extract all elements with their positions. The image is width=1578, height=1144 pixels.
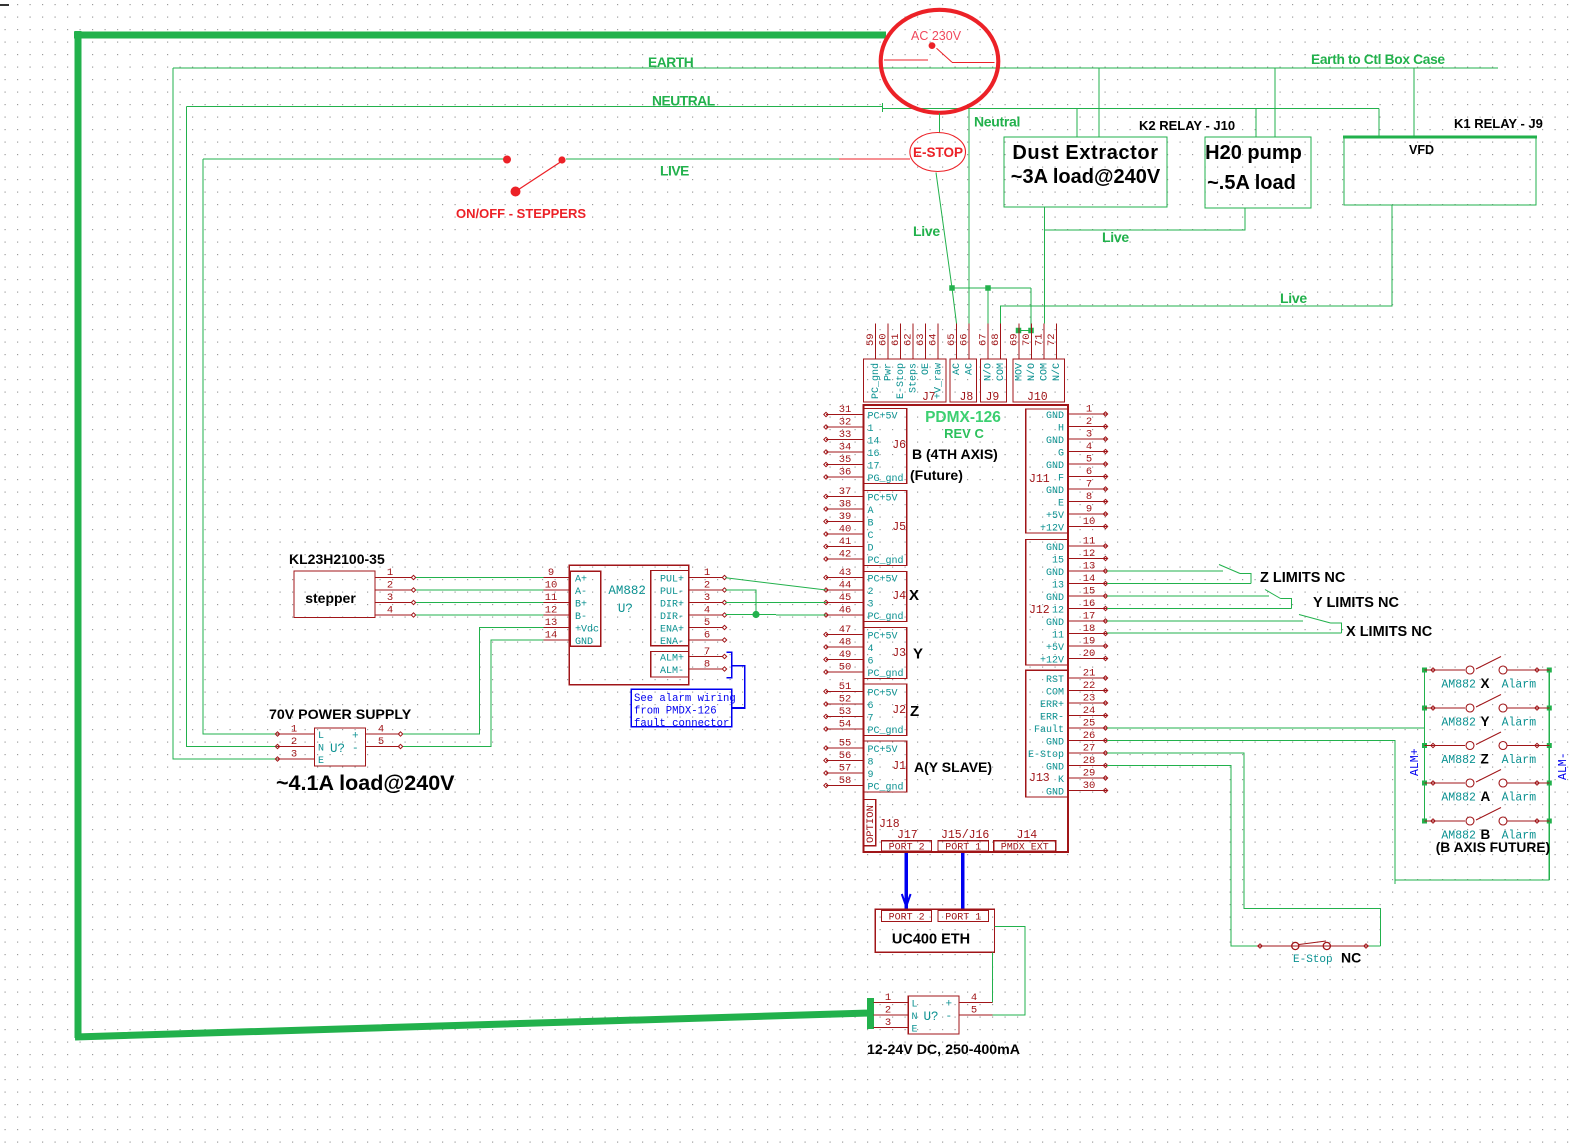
svg-text:68: 68 bbox=[990, 333, 1002, 346]
wire J12 to X limit upper bbox=[1107, 620, 1303, 622]
svg-text:5: 5 bbox=[378, 736, 384, 748]
svg-text:K: K bbox=[1058, 775, 1064, 786]
pin 33 J6 14 bbox=[826, 439, 864, 441]
svg-text:GND: GND bbox=[1046, 763, 1064, 774]
wire stepper pin 3 to AM882 bbox=[416, 602, 544, 604]
pin 56 J1 8 bbox=[826, 760, 864, 762]
svg-text:4: 4 bbox=[868, 644, 874, 655]
svg-text:Y LIMITS NC: Y LIMITS NC bbox=[1313, 595, 1399, 611]
svg-text:OPTION: OPTION bbox=[865, 805, 877, 843]
svg-text:10: 10 bbox=[1083, 516, 1096, 528]
wire earth to Dust Extractor bbox=[1098, 68, 1100, 137]
pin 55 J1 PC+5V bbox=[826, 747, 864, 749]
svg-text:KL23H2100-35: KL23H2100-35 bbox=[289, 551, 385, 567]
svg-text:H20 pump: H20 pump bbox=[1205, 142, 1302, 164]
ALM- bus (right vertical) bbox=[1548, 670, 1550, 880]
svg-text:43: 43 bbox=[839, 567, 852, 579]
svg-text:12: 12 bbox=[1052, 606, 1064, 617]
svg-text:3: 3 bbox=[868, 600, 874, 611]
svg-text:EARTH: EARTH bbox=[648, 55, 694, 70]
pin 4 12-24V supply bbox=[959, 1002, 992, 1004]
pin 61 J7 E-Stop bbox=[900, 324, 902, 360]
pin 39 J5 B bbox=[826, 521, 864, 523]
svg-text:(B AXIS FUTURE): (B AXIS FUTURE) bbox=[1436, 840, 1550, 855]
connector J10 (top) bbox=[1013, 359, 1065, 402]
connector J5 (left) bbox=[864, 491, 907, 566]
pin 72 J10 N/C bbox=[1056, 324, 1058, 360]
svg-text:+5V: +5V bbox=[1046, 511, 1064, 522]
power supply U? 70V box bbox=[315, 728, 366, 766]
svg-text:71: 71 bbox=[1034, 333, 1046, 346]
svg-text:4: 4 bbox=[378, 724, 384, 736]
svg-text:B: B bbox=[868, 519, 874, 530]
svg-text:AC: AC bbox=[952, 363, 963, 375]
pin 1 AM882 PUL+ bbox=[689, 577, 723, 579]
wire PDMX pin 25 Fault to ALM+ bus bbox=[1107, 727, 1425, 729]
pin 12 AM882 B- bbox=[544, 614, 571, 616]
svg-text:8: 8 bbox=[1086, 491, 1092, 503]
svg-text:E-STOP: E-STOP bbox=[913, 145, 963, 160]
svg-text:GND: GND bbox=[1046, 618, 1064, 629]
svg-text:3: 3 bbox=[704, 592, 710, 604]
cable PORT1 to UC400 (blue) bbox=[961, 853, 964, 909]
pin 3 stepper bbox=[375, 602, 412, 604]
node junction pins 69-70 bridge bbox=[1016, 328, 1022, 334]
svg-text:Live: Live bbox=[913, 223, 940, 239]
pin 13 J12 GND bbox=[1068, 570, 1107, 572]
svg-text:E: E bbox=[1058, 499, 1064, 510]
svg-text:PC_gnd: PC_gnd bbox=[870, 363, 882, 399]
svg-text:AC 230V: AC 230V bbox=[911, 29, 962, 43]
svg-text:ALM-: ALM- bbox=[660, 666, 684, 677]
svg-text:7: 7 bbox=[868, 714, 874, 725]
pin 25 J13 Fault bbox=[1068, 727, 1107, 729]
svg-text:Alarm: Alarm bbox=[1502, 717, 1537, 730]
svg-text:ALM-: ALM- bbox=[1557, 752, 1570, 780]
svg-text:47: 47 bbox=[839, 624, 852, 636]
svg-text:5: 5 bbox=[704, 617, 710, 629]
wire neutral to H20 pump bbox=[1255, 108, 1257, 137]
svg-text:+: + bbox=[946, 999, 953, 1011]
pin 70 J10 N/O bbox=[1031, 324, 1033, 360]
svg-text:DIR-: DIR- bbox=[660, 612, 684, 623]
svg-text:X LIMITS NC: X LIMITS NC bbox=[1346, 624, 1433, 640]
pin 20 J12 +12V bbox=[1068, 658, 1107, 660]
connector J13 (right) bbox=[1026, 670, 1068, 797]
svg-text:6: 6 bbox=[868, 657, 874, 668]
pin 38 J5 A bbox=[826, 508, 864, 510]
wire horizontal link pins 65-70 bbox=[952, 287, 1031, 289]
wire Z limit return to J12 bbox=[1107, 583, 1251, 585]
svg-text:stepper: stepper bbox=[305, 590, 356, 606]
svg-text:15: 15 bbox=[1052, 556, 1064, 567]
pin 10 J11 +12V bbox=[1068, 526, 1107, 528]
pin 8 J11 E bbox=[1068, 501, 1107, 503]
pin 69 J10 MOV bbox=[1018, 324, 1020, 360]
pin 2 stepper bbox=[375, 589, 412, 591]
svg-text:30: 30 bbox=[1083, 780, 1096, 792]
svg-text:PUL+: PUL+ bbox=[660, 575, 684, 586]
svg-text:F: F bbox=[1058, 474, 1064, 485]
svg-text:Alarm: Alarm bbox=[1502, 754, 1537, 767]
pin 35 J6 17 bbox=[826, 464, 864, 466]
svg-text:Z LIMITS NC: Z LIMITS NC bbox=[1260, 570, 1346, 586]
pin 10 AM882 A- bbox=[544, 589, 571, 591]
connector J7 (top) bbox=[863, 359, 946, 402]
svg-text:J9: J9 bbox=[986, 391, 1000, 404]
svg-text:J17: J17 bbox=[897, 829, 918, 842]
motor M1 stepper bbox=[294, 571, 375, 618]
svg-text:Live: Live bbox=[1280, 290, 1307, 306]
load Dust Extractor (K2 relay) bbox=[1004, 137, 1167, 207]
svg-text:64: 64 bbox=[928, 333, 940, 346]
svg-text:J2: J2 bbox=[892, 704, 906, 717]
svg-text:62: 62 bbox=[903, 333, 915, 346]
wire PDMX pin 28 GND to E-stop switch bbox=[1107, 766, 1257, 947]
pin 50 J3 PC_gnd bbox=[826, 671, 864, 673]
svg-text:5: 5 bbox=[971, 1005, 977, 1017]
pin 64 J7 +V_raw bbox=[937, 324, 939, 360]
svg-text:N: N bbox=[318, 744, 324, 755]
svg-text:GND: GND bbox=[1046, 568, 1064, 579]
svg-text:PUL-: PUL- bbox=[660, 587, 684, 598]
svg-text:4: 4 bbox=[704, 605, 710, 617]
svg-text:17: 17 bbox=[1083, 611, 1096, 623]
svg-text:26: 26 bbox=[1083, 730, 1096, 742]
svg-text:J15/J16: J15/J16 bbox=[941, 829, 989, 842]
svg-text:J1: J1 bbox=[892, 760, 906, 773]
pin 21 J13 RST bbox=[1068, 677, 1107, 679]
svg-text:AM882: AM882 bbox=[1441, 717, 1476, 730]
svg-text:25: 25 bbox=[1083, 718, 1096, 730]
svg-text:PC+5V: PC+5V bbox=[868, 412, 898, 423]
svg-text:K1 RELAY - J9: K1 RELAY - J9 bbox=[1454, 116, 1543, 131]
pin 31 J6 PC+5V bbox=[826, 414, 864, 416]
svg-text:GND: GND bbox=[575, 637, 593, 648]
switch E-Stop NC bbox=[1257, 945, 1369, 947]
svg-text:72: 72 bbox=[1046, 333, 1058, 346]
svg-text:E-Stop: E-Stop bbox=[896, 363, 907, 399]
svg-text:69: 69 bbox=[1009, 333, 1021, 346]
svg-text:ALM+: ALM+ bbox=[660, 654, 684, 665]
svg-text:ENA-: ENA- bbox=[660, 637, 684, 648]
svg-text:4: 4 bbox=[1086, 441, 1092, 453]
pin 27 J13 E-Stop bbox=[1068, 752, 1107, 754]
svg-text:PC_gnd: PC_gnd bbox=[868, 782, 904, 794]
pin 28 J13 GND bbox=[1068, 765, 1107, 767]
pin 5 12-24V supply bbox=[959, 1014, 992, 1016]
pin 18 J12 11 bbox=[1068, 633, 1107, 635]
svg-text:7: 7 bbox=[704, 646, 710, 658]
pin 29 J13 K bbox=[1068, 777, 1107, 779]
E-stop switch SW2 bbox=[910, 133, 966, 172]
svg-text:6: 6 bbox=[704, 630, 710, 642]
wire LIVE vertical to 70V supply bbox=[203, 159, 277, 734]
svg-text:12: 12 bbox=[545, 605, 558, 617]
svg-text:+5V: +5V bbox=[1046, 643, 1064, 654]
svg-text:22: 22 bbox=[1083, 680, 1096, 692]
svg-text:AM882: AM882 bbox=[1441, 792, 1476, 805]
svg-text:10: 10 bbox=[545, 580, 558, 592]
svg-text:Z: Z bbox=[910, 703, 919, 720]
svg-text:1: 1 bbox=[387, 567, 393, 579]
svg-text:2: 2 bbox=[291, 736, 297, 748]
pin 1 stepper bbox=[375, 577, 412, 579]
svg-text:PC_gnd: PC_gnd bbox=[868, 611, 904, 623]
svg-text:3: 3 bbox=[291, 749, 297, 761]
wire EARTH bus horizontal bbox=[173, 67, 1498, 69]
svg-text:49: 49 bbox=[839, 649, 852, 661]
svg-text:~.5A load: ~.5A load bbox=[1207, 172, 1296, 194]
wire stepper pin 1 to AM882 bbox=[416, 577, 544, 579]
svg-text:35: 35 bbox=[839, 454, 852, 466]
pin 3 AM882 DIR+ bbox=[689, 602, 723, 604]
wire AM882 DIR- to PDMX pin 46 bbox=[726, 614, 826, 617]
note box: see alarm wiring bbox=[631, 689, 731, 727]
alarm bracket (blue) bbox=[726, 652, 731, 678]
pin 66 J8 AC bbox=[968, 324, 970, 360]
svg-text:J5: J5 bbox=[892, 521, 906, 534]
pin 67 J9 N/O bbox=[987, 324, 989, 360]
svg-text:56: 56 bbox=[839, 750, 852, 762]
pin 49 J3 6 bbox=[826, 659, 864, 661]
svg-text:1: 1 bbox=[885, 992, 891, 1004]
svg-text:J12: J12 bbox=[1029, 604, 1050, 617]
svg-text:44: 44 bbox=[839, 580, 852, 592]
svg-text:PC+5V: PC+5V bbox=[868, 494, 898, 505]
connector J2 (left) bbox=[864, 684, 907, 736]
svg-text:45: 45 bbox=[839, 592, 852, 604]
svg-text:40: 40 bbox=[839, 524, 852, 536]
svg-text:A-: A- bbox=[575, 587, 587, 598]
wire Live from Dust Extractor / H20 pump to J10 COM pin 71 bbox=[1045, 208, 1246, 324]
svg-text:2: 2 bbox=[704, 580, 710, 592]
svg-text:65: 65 bbox=[946, 333, 958, 346]
svg-text:6: 6 bbox=[868, 701, 874, 712]
svg-text:E: E bbox=[912, 1025, 918, 1036]
svg-text:B (4TH AXIS): B (4TH AXIS) bbox=[912, 446, 998, 462]
pin 60 J7 Pwr bbox=[887, 324, 889, 360]
pin 45 J4 3 bbox=[826, 602, 864, 604]
IC U2 stepper driver AM882 outline bbox=[569, 565, 688, 684]
pin 5 J11 GND bbox=[1068, 463, 1107, 465]
svg-text:1: 1 bbox=[1086, 404, 1092, 416]
svg-text:Fault: Fault bbox=[1034, 724, 1064, 736]
pin 4 70V supply bbox=[366, 733, 400, 735]
wire E-stop switch to ALM- drop bbox=[1369, 945, 1381, 947]
svg-text:AC: AC bbox=[965, 363, 976, 375]
svg-text:D: D bbox=[868, 544, 874, 555]
svg-text:27: 27 bbox=[1083, 743, 1096, 755]
svg-text:58: 58 bbox=[839, 775, 852, 787]
svg-text:3: 3 bbox=[1086, 429, 1092, 441]
connector J4 (left) bbox=[864, 572, 907, 622]
pin 11 J12 GND bbox=[1068, 545, 1107, 547]
svg-text:20: 20 bbox=[1083, 648, 1096, 660]
wire NEUTRAL vertical to 70V supply bbox=[187, 107, 278, 747]
svg-text:See alarm wiring: See alarm wiring bbox=[634, 693, 736, 705]
svg-text:Earth to Ctl Box Case: Earth to Ctl Box Case bbox=[1311, 52, 1445, 67]
svg-text:Y: Y bbox=[913, 646, 923, 663]
svg-text:2: 2 bbox=[387, 580, 393, 592]
pin 4 J11 G bbox=[1068, 451, 1107, 453]
svg-text:7: 7 bbox=[1086, 479, 1092, 491]
svg-text:OE: OE bbox=[921, 363, 932, 375]
pin 51 J2 PC+5V bbox=[826, 691, 864, 693]
IC UC400 ETH motion controller bbox=[875, 909, 994, 952]
connector J12 (right) bbox=[1026, 540, 1068, 666]
svg-text:37: 37 bbox=[839, 486, 852, 498]
pin 3 12-24V supply bbox=[873, 1027, 908, 1029]
svg-text:13: 13 bbox=[545, 617, 558, 629]
svg-text:PC+5V: PC+5V bbox=[868, 632, 898, 643]
svg-text:14: 14 bbox=[1083, 573, 1096, 585]
svg-text:70: 70 bbox=[1021, 333, 1033, 346]
pin 2 70V supply bbox=[277, 746, 315, 748]
pin 1 12-24V supply bbox=[873, 1002, 908, 1004]
svg-text:1: 1 bbox=[704, 567, 710, 579]
svg-text:A: A bbox=[1481, 789, 1491, 804]
pin 52 J2 6 bbox=[826, 703, 864, 705]
svg-text:3: 3 bbox=[885, 1017, 891, 1029]
pin 2 AM882 PUL- bbox=[689, 589, 723, 591]
svg-text:ENA+: ENA+ bbox=[660, 625, 684, 636]
svg-text:13: 13 bbox=[1052, 581, 1064, 592]
switch X limit (NC) bbox=[1299, 615, 1331, 624]
connector J18 OPTION bbox=[864, 800, 876, 846]
cable PORT2 to UC400 (blue) bbox=[905, 853, 908, 909]
switch Y limit (NC) bbox=[1265, 590, 1281, 599]
svg-text:11: 11 bbox=[1083, 536, 1096, 548]
svg-text:PMDX EXT: PMDX EXT bbox=[1001, 843, 1049, 854]
svg-text:16: 16 bbox=[1083, 598, 1096, 610]
connector J3 (left) bbox=[864, 628, 907, 679]
wire UC400 to 12-24V supply pin 4 bbox=[991, 952, 993, 1002]
svg-text:36: 36 bbox=[839, 467, 852, 479]
svg-text:U?: U? bbox=[924, 1010, 939, 1024]
svg-text:GND: GND bbox=[1046, 486, 1064, 497]
svg-text:PORT 1: PORT 1 bbox=[945, 843, 981, 854]
svg-text:+12V: +12V bbox=[1040, 656, 1064, 667]
pin 2 12-24V supply bbox=[873, 1014, 908, 1016]
pin 8 AM882 ALM- bbox=[689, 668, 723, 670]
wire LIVE bus horizontal bbox=[203, 158, 507, 160]
pin 41 J5 D bbox=[826, 546, 864, 548]
wire stepper pin 4 to AM882 bbox=[416, 614, 544, 616]
wire earth to H20 pump bbox=[1274, 68, 1276, 137]
svg-text:14: 14 bbox=[545, 630, 558, 642]
svg-text:J10: J10 bbox=[1027, 391, 1048, 404]
svg-text:Z: Z bbox=[1481, 752, 1489, 767]
svg-text:19: 19 bbox=[1083, 636, 1096, 648]
node junction at E-stop output bbox=[949, 285, 955, 291]
svg-text:PORT 2: PORT 2 bbox=[889, 913, 925, 924]
svg-text:J6: J6 bbox=[892, 439, 906, 452]
svg-text:AM882: AM882 bbox=[1441, 679, 1476, 692]
connector J9 (top) bbox=[981, 359, 1007, 402]
svg-text:3: 3 bbox=[387, 592, 393, 604]
wire thick earth/mains feed (left border) bbox=[74, 31, 886, 1038]
connector J8 (top) bbox=[950, 359, 977, 402]
wire earth to VFD bbox=[1413, 68, 1415, 136]
wire PDMX pin 27 E-Stop to E-stop switch bbox=[1107, 753, 1381, 946]
wire X limit return to J12 bbox=[1107, 632, 1342, 634]
svg-text:PC+5V: PC+5V bbox=[868, 689, 898, 700]
pin 23 J13 ERR+ bbox=[1068, 702, 1107, 704]
pin 16 J12 12 bbox=[1068, 608, 1107, 610]
svg-text:PORT 2: PORT 2 bbox=[889, 843, 925, 854]
pin 4 AM882 DIR- bbox=[689, 614, 723, 616]
svg-text:PC+5V: PC+5V bbox=[868, 575, 898, 586]
pin 9 J11 +5V bbox=[1068, 513, 1107, 515]
svg-text:PC_gnd: PC_gnd bbox=[868, 725, 904, 737]
svg-text:A(Y SLAVE): A(Y SLAVE) bbox=[914, 759, 992, 775]
pin 62 J7 Steps bbox=[912, 324, 914, 360]
pin 68 J9 COM bbox=[1000, 324, 1002, 360]
pin 9 AM882 A+ bbox=[544, 577, 571, 579]
svg-text:23: 23 bbox=[1083, 693, 1096, 705]
svg-text:9: 9 bbox=[548, 567, 554, 579]
svg-text:GND: GND bbox=[1046, 461, 1064, 472]
svg-text:9: 9 bbox=[1086, 504, 1092, 516]
svg-text:70V POWER SUPPLY: 70V POWER SUPPLY bbox=[269, 707, 412, 723]
svg-text:11: 11 bbox=[1052, 631, 1064, 642]
svg-text:N/C: N/C bbox=[1051, 363, 1063, 381]
svg-text:1: 1 bbox=[291, 724, 297, 736]
svg-text:46: 46 bbox=[839, 605, 852, 617]
svg-text:COM: COM bbox=[1040, 363, 1051, 381]
svg-text:18: 18 bbox=[1083, 623, 1096, 635]
svg-text:-: - bbox=[946, 1011, 953, 1023]
pin 59 J7 PC_gnd bbox=[875, 324, 877, 360]
svg-text:RST: RST bbox=[1046, 675, 1064, 686]
svg-text:38: 38 bbox=[839, 499, 852, 511]
svg-text:AM882: AM882 bbox=[608, 584, 646, 598]
alarm switch AM882X bbox=[1422, 668, 1427, 673]
svg-text:ERR-: ERR- bbox=[1040, 713, 1064, 724]
svg-text:31: 31 bbox=[839, 404, 852, 416]
node junction at pin 67 drop bbox=[985, 285, 991, 291]
pin 40 J5 C bbox=[826, 533, 864, 535]
connector J1 (left) bbox=[864, 741, 907, 792]
svg-text:N/O: N/O bbox=[1026, 363, 1038, 381]
svg-text:33: 33 bbox=[839, 429, 852, 441]
pin 65 J8 AC bbox=[956, 324, 958, 360]
svg-text:53: 53 bbox=[839, 706, 852, 718]
svg-text:63: 63 bbox=[915, 333, 927, 346]
wire neutral drop to J8 pin 66 bbox=[968, 108, 970, 323]
svg-text:~4.1A load@240V: ~4.1A load@240V bbox=[276, 771, 455, 795]
svg-text:+: + bbox=[352, 731, 359, 743]
svg-text:Live: Live bbox=[1102, 229, 1129, 245]
pin 5 70V supply bbox=[366, 746, 400, 748]
svg-text:4: 4 bbox=[387, 605, 393, 617]
svg-text:GND: GND bbox=[1046, 436, 1064, 447]
svg-text:PC_gnd: PC_gnd bbox=[868, 555, 904, 567]
pin 47 J3 PC+5V bbox=[826, 634, 864, 636]
pin 14 J12 13 bbox=[1068, 583, 1107, 585]
svg-text:13: 13 bbox=[1083, 561, 1096, 573]
AM882 alarm connector ALM bbox=[651, 652, 689, 677]
svg-text:GND: GND bbox=[1046, 788, 1064, 799]
svg-text:A: A bbox=[868, 506, 874, 517]
svg-text:Dust Extractor: Dust Extractor bbox=[1012, 142, 1158, 164]
svg-text:21: 21 bbox=[1083, 668, 1096, 680]
svg-text:AM882: AM882 bbox=[1441, 754, 1476, 767]
svg-text:X: X bbox=[909, 587, 919, 604]
svg-text:PORT 1: PORT 1 bbox=[945, 913, 981, 924]
svg-text:11: 11 bbox=[545, 592, 558, 604]
